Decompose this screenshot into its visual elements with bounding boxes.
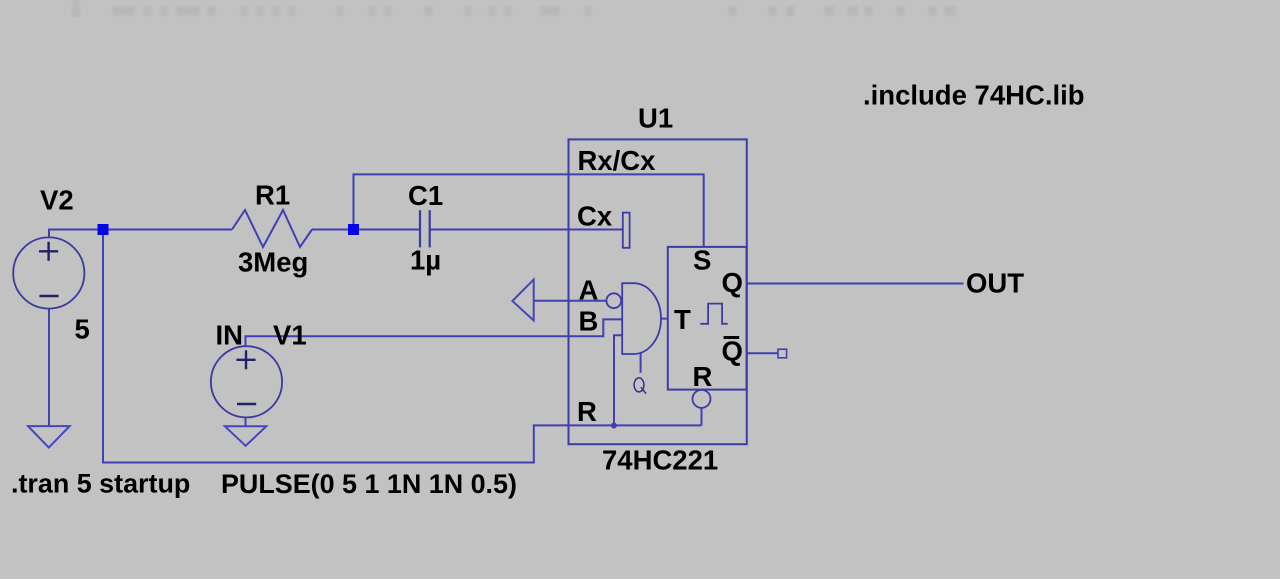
svg-text:S: S — [693, 244, 711, 275]
svg-text:Rx/Cx: Rx/Cx — [578, 145, 657, 176]
svg-text:74HC221: 74HC221 — [602, 445, 718, 476]
svg-text:IN: IN — [216, 320, 244, 351]
svg-text:R: R — [577, 396, 597, 427]
svg-text:PULSE(0 5 1 1N 1N 0.5): PULSE(0 5 1 1N 1N 0.5) — [221, 469, 517, 499]
svg-text:V2: V2 — [40, 185, 74, 216]
svg-text:A: A — [579, 275, 599, 306]
svg-text:.tran 5 startup: .tran 5 startup — [11, 469, 190, 499]
svg-text:B: B — [579, 306, 599, 337]
svg-text:Q: Q — [722, 267, 743, 298]
svg-text:U1: U1 — [638, 103, 673, 134]
svg-text:.include 74HC.lib: .include 74HC.lib — [863, 80, 1085, 111]
svg-text:Cx: Cx — [577, 201, 613, 232]
svg-text:C1: C1 — [408, 180, 443, 211]
svg-text:T: T — [674, 304, 691, 335]
svg-text:R: R — [693, 361, 713, 392]
svg-text:Q: Q — [722, 336, 743, 367]
svg-text:1µ: 1µ — [410, 245, 441, 276]
svg-text:R1: R1 — [255, 180, 290, 211]
svg-text:5: 5 — [75, 314, 90, 345]
svg-text:OUT: OUT — [966, 267, 1024, 298]
svg-text:V1: V1 — [273, 320, 307, 351]
svg-text:3Meg: 3Meg — [238, 247, 308, 278]
